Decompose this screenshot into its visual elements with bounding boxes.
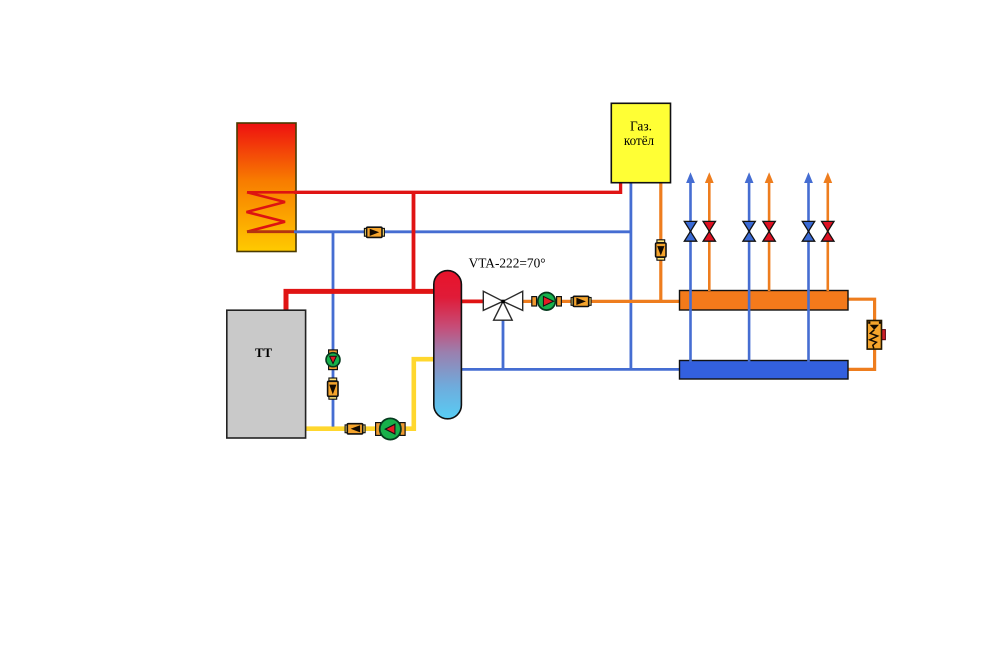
check valve CV5 (yellow line, arrow left) xyxy=(345,424,365,434)
check valve CV1 (blue line, arrow right) xyxy=(364,227,384,237)
wire blue tank-coil to boiler return xyxy=(294,230,631,233)
riser blue 3 xyxy=(804,172,813,362)
svg-text:Газ.: Газ. xyxy=(630,119,652,134)
svg-text:ТТ: ТТ xyxy=(255,346,272,360)
gas boiler box xyxy=(611,103,670,182)
valve blue bowtie 2 xyxy=(743,221,755,241)
pump P3 (yellow line, arrow left) xyxy=(376,418,406,439)
solid fuel boiler TT box xyxy=(227,310,306,438)
check valve CV4 (blue vertical, arrow down) xyxy=(328,378,338,399)
wire orange manifold bypass loop xyxy=(847,299,875,369)
wire red separator to valve xyxy=(450,299,484,303)
three-way valve VTA-222 xyxy=(483,291,522,320)
hydraulic separator xyxy=(434,271,462,419)
valve blue bowtie 3 xyxy=(802,221,814,241)
wire red thick TT supply xyxy=(286,291,437,310)
svg-text:VTA-222=70°: VTA-222=70° xyxy=(469,256,546,271)
wire orange supply from valve to manifold xyxy=(523,300,682,303)
wire red branch vertical xyxy=(412,192,416,291)
valve blue bowtie 1 xyxy=(684,221,696,241)
riser orange 3 xyxy=(823,172,832,291)
svg-text:котёл: котёл xyxy=(624,133,654,148)
wire blue gas boiler return vertical xyxy=(630,182,633,369)
supply manifold (orange) xyxy=(680,291,849,311)
wire orange gas boiler supply vertical xyxy=(659,182,662,301)
riser blue 2 xyxy=(745,172,754,362)
heat exchanger coil inside tank xyxy=(247,192,296,231)
riser orange 2 xyxy=(765,172,774,291)
valve red bowtie 2 xyxy=(763,221,775,241)
label VTA-222=70 xyxy=(469,256,546,271)
wire blue return horizontal to manifold xyxy=(450,368,682,371)
pump P1 (after valve, arrow right) xyxy=(532,293,562,311)
valve red bowtie 3 xyxy=(822,221,834,241)
wire blue TT loop vertical xyxy=(332,232,335,427)
wire blue valve bottom drop xyxy=(502,311,505,369)
buffer tank with gradient xyxy=(237,123,296,252)
wire red top supply line xyxy=(294,182,621,192)
riser blue 1 xyxy=(686,172,695,362)
riser orange 1 xyxy=(705,172,714,291)
wire yellow TT return line xyxy=(305,359,435,429)
check valve CV2 (orange line, arrow right) xyxy=(571,296,591,306)
return manifold (blue) xyxy=(680,361,849,380)
check valve CV3 (orange vertical, arrow down) xyxy=(656,240,666,260)
pump P2 (blue vertical, arrow down) xyxy=(326,350,340,370)
bypass valve (right side with spring) xyxy=(867,321,885,350)
valve red bowtie 1 xyxy=(703,221,715,241)
